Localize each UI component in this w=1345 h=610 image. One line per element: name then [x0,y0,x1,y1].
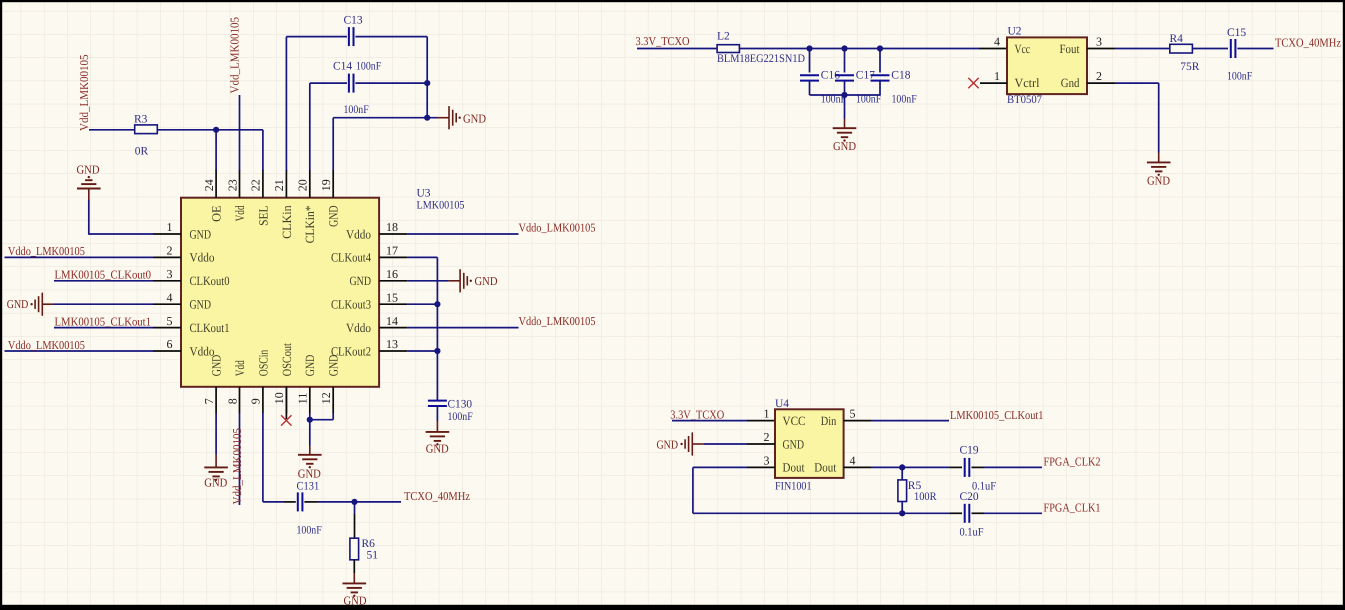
svg-text:3: 3 [1096,35,1102,49]
svg-text:Vddo_LMK00105: Vddo_LMK00105 [8,244,85,258]
svg-text:5: 5 [167,314,173,328]
svg-text:Vddo_LMK00105: Vddo_LMK00105 [8,338,85,352]
wire pin21 up to C13 [285,37,287,171]
svg-text:100R: 100R [914,491,937,503]
ground GND (below pin7) [215,455,217,468]
capacitor C13 [286,36,347,38]
svg-text:C19: C19 [960,444,979,456]
wire pin3 to R4 [1115,48,1170,50]
svg-text:GND: GND [657,437,679,451]
svg-text:3: 3 [764,453,770,467]
svg-text:Vddo: Vddo [346,321,371,335]
capacitor C131 [298,492,303,511]
ground GND (bar style, pin4) [42,303,54,305]
wire L2 to U2 pin4 [739,48,979,50]
U3 pin 17 CLKout4 (right) [379,256,407,258]
svg-text:GND: GND [204,476,227,490]
svg-text:24: 24 [202,179,216,191]
svg-text:100nF: 100nF [356,61,381,73]
wire U4 pin3 loop to FPGA_CLK1 [693,466,747,468]
svg-text:23: 23 [225,179,239,191]
capacitor C18 [879,49,881,73]
U3 pin 16 GND (right) [379,280,407,282]
svg-text:TCXO_40MHz: TCXO_40MHz [404,489,470,503]
junction R5 bottom [899,510,905,516]
U3 pin 20 CLKin* (top) [309,170,311,198]
svg-text:Gnd: Gnd [1061,76,1080,90]
svg-text:GND: GND [783,437,805,451]
capacitor C20 [965,504,970,523]
resistor R4 [1170,44,1193,53]
svg-text:100nF: 100nF [892,93,917,105]
svg-text:12: 12 [319,392,333,404]
svg-text:7: 7 [202,398,216,404]
U3 pin 1 GND (left) [153,233,181,235]
wire pin15 [407,303,437,305]
svg-text:51: 51 [367,550,379,562]
svg-text:GND: GND [426,441,449,455]
svg-text:TCXO_40MHz: TCXO_40MHz [1275,36,1341,50]
svg-text:GND: GND [344,593,367,607]
svg-text:8: 8 [225,398,239,404]
wire 3.3V_TCXO to L2 [637,48,717,50]
svg-text:CLKin: CLKin [280,205,294,239]
ground GND (below C130) [436,421,438,432]
svg-text:CLKout0: CLKout0 [190,274,230,288]
svg-text:BT0507: BT0507 [1007,94,1042,106]
U3 pin 15 CLKout3 (right) [379,303,407,305]
wire C16-C18 bottom rail [810,94,881,96]
svg-text:18: 18 [386,220,398,234]
svg-text:U3: U3 [417,187,431,199]
capacitor C16 [809,49,811,73]
wire pin8 down [239,413,241,505]
svg-text:FPGA_CLK1: FPGA_CLK1 [1044,500,1101,514]
wire pin11 down to GND [309,413,311,446]
U3 pin 4 GND (left) [153,303,181,305]
svg-text:Vdd: Vdd [233,205,247,222]
wire pin19 horizontal to GND [333,117,437,119]
ground GND (below pin11) [309,446,311,455]
svg-text:GND: GND [463,111,486,125]
svg-text:4: 4 [994,34,1000,48]
wire pin9 down to C131 [262,413,264,502]
wire pin7 to GND [215,413,217,455]
svg-text:R3: R3 [134,114,148,126]
ground GND (below U2) [1158,153,1160,163]
svg-text:Vddo: Vddo [346,227,371,241]
svg-text:R6: R6 [362,538,376,550]
wire pin5 [54,327,153,329]
sheet border [0,0,1345,2]
inductor L2 [717,45,739,53]
svg-text:C18: C18 [891,69,910,81]
ground GND (top-left, pin1) [88,189,90,201]
U3 pin 2 Vddo (left) [153,256,181,258]
svg-text:Vddo_LMK00105: Vddo_LMK00105 [519,221,596,235]
svg-text:GND: GND [210,355,224,377]
svg-text:GND: GND [833,139,856,153]
U3 pin 8 Vdd (bottom) [239,387,241,414]
U3 pin 24 OE (top) [215,170,217,198]
U3 pin 14 Vddo (right) [379,327,407,329]
junction pin15 [434,301,440,307]
svg-text:SEL: SEL [256,205,270,226]
svg-text:16: 16 [386,267,398,281]
wire CLKout net vertical [436,257,438,400]
U3 pin 23 Vdd (top) [239,170,241,198]
svg-text:L2: L2 [717,31,730,43]
op-amp U3 body (LMK00105 component body) [181,198,379,387]
U3 pin 7 GND (bottom) [215,387,217,414]
svg-text:1: 1 [167,220,173,234]
capacitor C130 [428,401,447,406]
svg-text:GND: GND [190,227,212,241]
wire pin13 [407,350,437,352]
ground GND (below C16-C18) [844,119,846,129]
svg-text:LMK00105: LMK00105 [417,199,465,211]
junction pin19 net [424,115,430,121]
U3 pin 5 CLKout1 (left) [153,327,181,329]
svg-text:C20: C20 [960,491,979,503]
svg-text:4: 4 [850,453,856,467]
svg-text:3.3V_TCXO: 3.3V_TCXO [670,408,724,422]
junction R5 top [899,464,905,470]
svg-text:U4: U4 [775,398,789,410]
U3 pin 11 GND (bottom) [309,387,311,414]
wire pin19 up [332,118,334,171]
svg-text:VCC: VCC [783,414,806,428]
junction R3/pin24 [213,127,219,133]
junction C18 [877,45,883,51]
svg-text:10: 10 [272,392,286,404]
wire pin18 to net label [407,233,518,235]
svg-text:17: 17 [386,244,398,258]
junction pin11/pin12 [307,417,313,423]
svg-text:CLKout1: CLKout1 [190,321,230,335]
wire pin14 to net label [407,327,518,329]
svg-text:Vdd_LMK00105: Vdd_LMK00105 [228,17,242,94]
svg-text:GND: GND [77,163,100,177]
svg-text:11: 11 [296,393,310,405]
svg-text:9: 9 [249,398,263,404]
svg-text:GND: GND [190,298,212,312]
wire pin22 up to R3 net corner [262,130,264,171]
U3 pin 3 CLKout0 (left) [153,280,181,282]
wire pin3 [54,280,153,282]
svg-text:2: 2 [1096,69,1102,83]
svg-text:Vcc: Vcc [1015,42,1031,56]
U3 pin 19 GND (top) [332,170,334,198]
wire R4 to C15 [1193,48,1228,50]
no-ERC cross on U2 pin1 [968,78,978,88]
svg-text:GND: GND [350,274,372,288]
resistor R6 [354,502,356,514]
U3 pin 21 CLKin (top) [285,170,287,198]
junction C16 [806,45,812,51]
junction bottom rail [841,92,847,98]
svg-text:GND: GND [298,467,321,481]
svg-text:C13: C13 [344,15,363,27]
capacitor C17 [844,49,846,73]
wire pin12 to pin11 [332,413,334,420]
svg-text:21: 21 [272,179,286,191]
svg-text:20: 20 [296,179,310,191]
wire pin4 [54,303,153,305]
svg-text:CLKout3: CLKout3 [331,298,371,312]
svg-text:LMK00105_CLKout1: LMK00105_CLKout1 [55,314,152,328]
op-amp U2 body (BT0507) [1007,37,1087,94]
svg-text:Fout: Fout [1060,42,1080,56]
svg-text:100nF: 100nF [297,525,322,537]
svg-text:4: 4 [167,290,173,304]
svg-text:100nF: 100nF [344,104,369,116]
wire pin20 up to C14 [309,83,311,171]
svg-text:GND: GND [7,297,29,311]
svg-text:CLKin*: CLKin* [303,205,317,243]
svg-text:FIN1001: FIN1001 [775,481,812,493]
wire pin23 up [239,95,241,171]
svg-text:0R: 0R [135,146,149,158]
svg-text:C130: C130 [448,399,473,411]
svg-text:OSCout: OSCout [280,343,294,376]
svg-text:GND: GND [327,355,341,377]
svg-text:Vddo_LMK00105: Vddo_LMK00105 [519,314,596,328]
svg-text:LMK00105_CLKout1: LMK00105_CLKout1 [950,408,1044,422]
svg-text:6: 6 [167,337,173,351]
svg-text:2: 2 [764,430,770,444]
svg-text:13: 13 [386,337,398,351]
svg-text:Vdd_LMK00105: Vdd_LMK00105 [77,55,91,132]
svg-text:75R: 75R [1180,61,1200,73]
svg-text:CLKout4: CLKout4 [331,251,372,265]
svg-text:100nF: 100nF [448,411,473,423]
svg-text:14: 14 [386,314,398,328]
svg-text:5: 5 [850,407,856,421]
junction C14 [424,80,430,86]
svg-text:1: 1 [764,407,770,421]
junction R6/TCXO net [351,499,357,505]
junction C17 [841,45,847,51]
svg-text:Vdd: Vdd [233,360,247,377]
svg-text:LMK00105_CLKout0: LMK00105_CLKout0 [55,268,152,282]
svg-text:Vddo: Vddo [190,251,215,265]
svg-text:GND: GND [475,274,498,288]
U3 pin 22 SEL (top) [262,170,264,198]
capacitor C15 [1231,39,1236,58]
svg-text:OE: OE [210,205,224,222]
wire pin6 [5,350,154,352]
wire pin1 to GND [89,233,153,235]
svg-text:Dout: Dout [814,461,836,475]
svg-text:Din: Din [821,414,837,428]
svg-text:OSCin: OSCin [256,349,270,376]
resistor R5 [901,467,903,480]
svg-text:3.3V_TCXO: 3.3V_TCXO [636,34,690,48]
svg-text:C14: C14 [333,61,352,73]
wire pin17 [407,256,437,258]
wire rail to GND [844,95,846,119]
wire pin24 up to R3 net [215,130,217,171]
U3 pin 18 Vddo (right) [379,233,407,235]
wire C13/C14 right vertical [426,37,428,118]
svg-text:2: 2 [167,244,173,258]
wire pin16 to GND [407,280,448,282]
U3 pin 9 OSCin (bottom) [262,387,264,414]
svg-text:U2: U2 [1008,25,1022,37]
svg-text:Vdd_LMK00105: Vdd_LMK00105 [230,428,244,505]
svg-text:C131: C131 [297,481,320,493]
wire U4 pin5 to net label [872,420,949,422]
svg-text:R4: R4 [1170,33,1184,45]
ground GND (bar style, top) [437,117,449,119]
svg-text:GND: GND [327,205,341,227]
ground GND (bar style, U4 pin2) [704,443,747,445]
svg-text:GND: GND [1147,174,1170,188]
junction pin13 [434,348,440,354]
svg-text:Dout: Dout [783,461,805,475]
svg-text:19: 19 [319,179,333,191]
ground GND (below R6) [353,573,355,583]
capacitor C19 [965,458,970,477]
no-ERC cross on pin10 OSCout [285,387,287,419]
svg-text:BLM18EG221SN1D: BLM18EG221SN1D [717,53,805,65]
svg-text:22: 22 [249,179,263,191]
capacitor C14 [310,82,347,84]
svg-text:3: 3 [167,267,173,281]
op-amp U4 body (FIN1001) [775,409,844,478]
U3 pin 6 Vddo (left) [153,350,181,352]
wire U4 pin4 to C19 [872,466,950,468]
ground GND (bar style, pin16) [448,280,460,282]
svg-text:Vctrl: Vctrl [1015,76,1040,90]
svg-text:100nF: 100nF [1227,70,1252,82]
U3 pin 13 CLKout2 (right) [379,350,407,352]
svg-text:GND: GND [303,355,317,377]
svg-text:FPGA_CLK2: FPGA_CLK2 [1044,454,1101,468]
U3 pin 10 OSCout (bottom) [285,387,287,414]
U3 pin 12 GND (bottom) [332,387,334,414]
svg-text:15: 15 [386,290,398,304]
wire pin2 [5,256,154,258]
wire 3.3V_TCXO to U4 pin1 [672,420,747,422]
svg-text:1: 1 [994,69,1000,83]
wire pin2 to GND [1115,82,1159,84]
resistor R3 [89,129,135,131]
svg-text:C15: C15 [1227,27,1246,39]
svg-text:0.1uF: 0.1uF [960,526,984,538]
